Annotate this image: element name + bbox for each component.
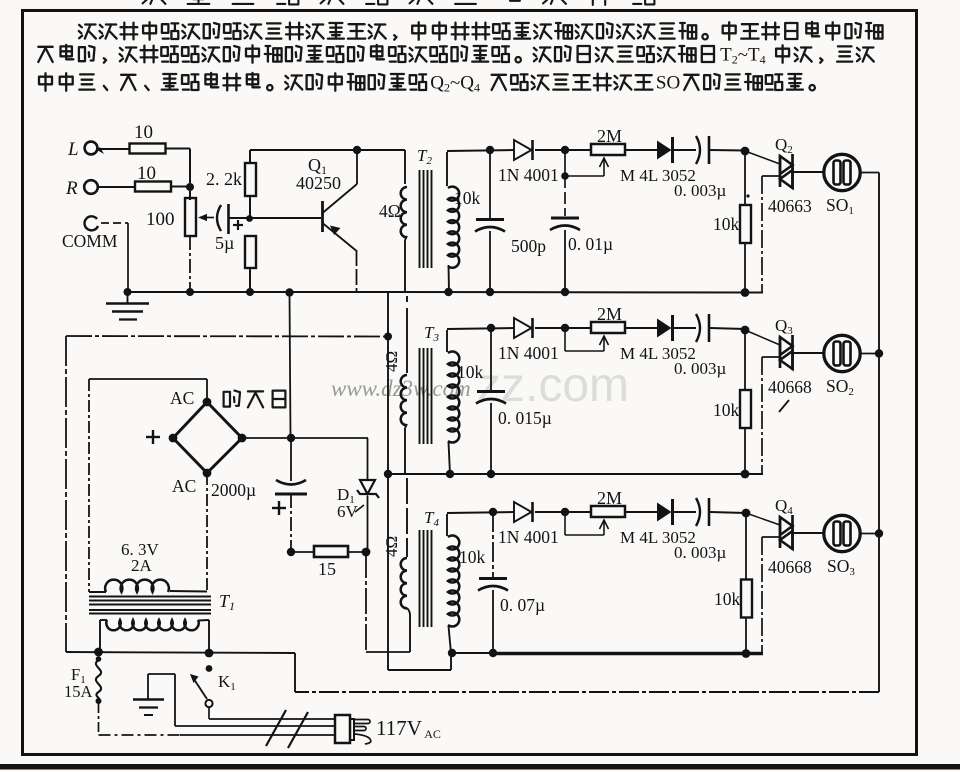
potentiometer 2M row1 <box>591 126 625 155</box>
wire cap to base node <box>229 215 253 222</box>
svg-text:Q2: Q2 <box>775 135 793 156</box>
svg-text:0. 003µ: 0. 003µ <box>674 181 727 200</box>
watermark large <box>477 359 629 412</box>
svg-text:SO2: SO2 <box>826 376 854 398</box>
outer left bus <box>65 336 67 652</box>
fuse F1 15A <box>64 656 102 704</box>
bottom supply wire <box>66 648 295 658</box>
svg-text:2M: 2M <box>597 126 622 146</box>
svg-text:AC: AC <box>170 388 194 408</box>
wire lamp SO1 to return bus <box>859 172 880 174</box>
svg-text:L: L <box>67 139 79 160</box>
left feed bus for transformer primaries <box>384 292 392 670</box>
svg-text:4Ω: 4Ω <box>382 536 401 557</box>
svg-text:0. 015µ: 0. 015µ <box>498 408 552 428</box>
wire to return loop <box>294 653 296 692</box>
svg-text:10: 10 <box>134 122 153 143</box>
paragraph line 3 <box>39 72 815 94</box>
wire triac to lamp row3 <box>793 532 826 534</box>
T1 label <box>219 591 235 613</box>
ground to mains wire <box>175 725 336 727</box>
label 4ohm T2 <box>379 201 401 221</box>
switch K1 <box>190 665 236 707</box>
row1 bottom rail y=292 <box>388 288 763 297</box>
wire cap to gate node row3 <box>710 509 750 518</box>
svg-text:117V AC: 117V AC <box>376 716 441 741</box>
diac M4L3052 row1 <box>620 137 696 185</box>
T3 label <box>424 323 439 344</box>
capacitor 0.015u <box>476 328 552 474</box>
capacitor 2000u <box>211 433 307 552</box>
wire lamp SO2 to return bus <box>859 349 884 357</box>
bridge AC top feed wire <box>89 379 207 399</box>
svg-text:2000µ: 2000µ <box>211 480 256 500</box>
resistor 15 <box>287 546 371 579</box>
paragraph line 1 <box>79 22 883 40</box>
T2 primary 4ohm <box>401 150 407 292</box>
svg-text:2. 2k: 2. 2k <box>206 169 242 189</box>
2M wiper hook row2 <box>565 328 609 351</box>
wire R2 to node / node dot <box>171 183 194 191</box>
svg-text:2M: 2M <box>597 304 622 324</box>
triac Q4 <box>746 496 812 577</box>
lamp return bus vertical <box>878 173 880 693</box>
T3 secondary 10k <box>447 330 459 474</box>
wire base node to Q1 base <box>250 217 321 219</box>
lamp SO2 <box>824 335 860 398</box>
T4 secondary 10k <box>447 514 459 653</box>
emitter supply drop wire <box>290 293 291 439</box>
svg-text:15: 15 <box>318 559 336 579</box>
T3 primary 4ohm <box>401 296 407 474</box>
T4 label <box>424 508 439 529</box>
label 10k T2 <box>454 188 481 208</box>
lamp SO3 <box>824 515 860 578</box>
label 4ohm T3 (rotated) <box>382 351 401 372</box>
label rectifier (chinese) <box>224 391 286 408</box>
node: collector rail junction <box>353 146 361 154</box>
row3 rail from T4 <box>447 512 514 513</box>
paragraph line 2 <box>38 44 874 66</box>
row3 bottom rail y=653 <box>448 649 763 658</box>
label AC (top) <box>170 388 194 408</box>
diode 1N4001 row2 <box>498 318 559 363</box>
terminal R <box>65 178 98 199</box>
lamp SO1 <box>824 154 860 217</box>
resistor 2.2k <box>206 150 256 218</box>
diac M4L3052 row2 <box>620 315 696 363</box>
svg-text:2M: 2M <box>597 488 622 508</box>
stray slash mark <box>779 400 789 412</box>
potentiometer 2M row3 <box>591 488 625 517</box>
watermark small <box>331 376 471 401</box>
label AC (bottom) <box>172 476 196 496</box>
wire triac to lamp row1 <box>793 171 826 173</box>
bridge + label <box>146 430 160 444</box>
svg-text:T2: T2 <box>417 146 432 167</box>
svg-text:10k: 10k <box>713 214 740 234</box>
transformer T4 core <box>420 530 432 627</box>
diac M4L3052 row3 <box>620 499 696 547</box>
ground (input common) <box>106 288 149 320</box>
resistor 10 (left channel) <box>130 122 166 154</box>
diode D 1N4001 row1 <box>498 140 559 185</box>
svg-text:T1: T1 <box>219 591 235 613</box>
triac Q2 MT1 wire <box>762 176 780 292</box>
2M wiper hook row1 <box>561 150 608 180</box>
wire diode to pot row2 / dots <box>487 324 591 332</box>
lamp return bottom wire <box>295 691 879 693</box>
svg-text:0. 003µ: 0. 003µ <box>674 359 727 378</box>
wire 15 to T4 primary <box>366 552 410 652</box>
svg-text:AC: AC <box>172 476 196 496</box>
wire R to R2 <box>98 186 136 188</box>
svg-text:10: 10 <box>137 163 156 184</box>
row1 rail from T2 <box>447 150 514 151</box>
resistor 10k row2 <box>713 330 751 474</box>
svg-text:SO1: SO1 <box>826 195 854 217</box>
diode 1N4001 row3 <box>498 502 559 547</box>
capacitor 500p <box>475 150 546 292</box>
collector supply rail y=150 <box>250 149 405 151</box>
transistor Q1 40250 <box>296 150 357 292</box>
terminal COMM <box>62 216 128 292</box>
clipped title text row (bottom of page-title glyphs) <box>142 0 654 5</box>
capacitor 0.003u row2 <box>674 314 727 378</box>
label 4ohm T4 (rotated) <box>382 536 401 557</box>
wire diac to cap row3 <box>673 511 696 513</box>
wire triac to lamp row2 <box>793 352 826 354</box>
svg-text:100: 100 <box>146 209 175 230</box>
label 6.3V 2A <box>121 540 160 575</box>
2M wiper hook row3 <box>565 512 609 535</box>
svg-text:0. 01µ: 0. 01µ <box>568 234 613 254</box>
resistor 10 (right channel) <box>135 163 171 192</box>
chassis ground <box>133 674 175 726</box>
svg-text:1N 4001: 1N 4001 <box>498 343 559 363</box>
T1 feed wires to bridge <box>89 379 207 592</box>
svg-text:COMM: COMM <box>62 231 118 251</box>
bottom scan edge bar <box>0 764 960 770</box>
svg-text:40250: 40250 <box>296 173 341 193</box>
wire bridge + output <box>242 434 368 442</box>
label 10k T4 <box>459 547 486 567</box>
wire pot to diac row2 <box>625 327 657 329</box>
terminal L <box>67 139 104 160</box>
lower bias resistor <box>245 236 256 292</box>
triac Q4 MT1 wire <box>762 537 780 653</box>
wire pot to diac row3 <box>625 511 657 513</box>
capacitor 5u <box>215 204 243 253</box>
capacitor 0.01u <box>550 176 613 292</box>
svg-text:SO3: SO3 <box>827 556 855 578</box>
wire lamp SO3 to return bus <box>859 529 884 537</box>
wire diode to pot row1 / junction dots <box>486 146 591 154</box>
T4 primary 4ohm <box>401 478 410 652</box>
svg-text:10k: 10k <box>454 188 481 208</box>
svg-text:10k: 10k <box>714 589 741 609</box>
triac Q3 MT1 wire <box>762 357 780 474</box>
svg-text:R: R <box>65 178 78 199</box>
row2 rail from T3 <box>447 328 514 329</box>
wire diac to cap row1 <box>673 149 696 151</box>
transformer T3 core <box>420 348 432 444</box>
switch to mains wire <box>209 707 336 719</box>
T1 secondary winding <box>89 580 207 592</box>
svg-text:0. 07µ: 0. 07µ <box>500 595 545 615</box>
capacitor 0.07u <box>478 512 545 653</box>
svg-text:4Ω: 4Ω <box>382 351 401 372</box>
svg-text:40668: 40668 <box>768 557 812 577</box>
svg-text:zz.com: zz.com <box>477 359 629 412</box>
label 117VAC <box>376 716 441 741</box>
wire R1 to node <box>166 149 191 184</box>
wire cap to gate node row1 <box>710 147 749 156</box>
T2 secondary 10k <box>447 152 459 292</box>
capacitor 0.003u row1 <box>674 136 750 200</box>
capacitor 0.003u row3 <box>674 498 727 562</box>
T2 label <box>417 146 432 167</box>
svg-text:T4: T4 <box>424 508 439 529</box>
label 10k T3 <box>457 362 484 382</box>
potentiometer 100 <box>146 191 196 292</box>
T1 primary winding <box>100 620 209 653</box>
resistor 10k row1 <box>713 151 751 292</box>
svg-text:K1: K1 <box>218 672 236 693</box>
svg-text:1N 4001: 1N 4001 <box>498 165 559 185</box>
wire diac to cap row2 <box>673 327 696 329</box>
triac Q3 <box>745 316 812 397</box>
svg-text:10k: 10k <box>457 362 484 382</box>
svg-text:Q3: Q3 <box>775 316 793 337</box>
pot wiper arrow <box>198 214 214 221</box>
ground rail (emitter/common) y=292 <box>128 291 389 293</box>
resistor 10k row3 <box>714 513 752 653</box>
svg-text:15A: 15A <box>64 682 93 701</box>
wire L to R1 <box>98 148 129 150</box>
svg-text:10k: 10k <box>459 547 486 567</box>
svg-text:40668: 40668 <box>768 377 812 397</box>
svg-text:0. 003µ: 0. 003µ <box>674 543 727 562</box>
potentiometer 2M row2 <box>591 304 625 333</box>
row2 bottom rail y=474 <box>388 470 763 479</box>
wire pot to diac row1 <box>625 149 657 151</box>
wire cap to gate node row2 <box>710 326 749 335</box>
bridge rectifier (zheng liu qi) <box>169 398 247 478</box>
zener D1 6V <box>337 438 379 552</box>
fuse to mains wire <box>99 703 337 735</box>
T1 core <box>89 597 211 614</box>
node dots on ground rail <box>186 288 294 297</box>
transformer T2 core <box>420 170 432 268</box>
svg-text:10k: 10k <box>713 400 740 420</box>
wire bus to supply (y=336) <box>66 335 388 338</box>
triac Q2 <box>745 135 812 216</box>
svg-text:40663: 40663 <box>768 196 812 216</box>
bus bottom hook to row3 rail <box>388 653 451 670</box>
svg-text:5µ: 5µ <box>215 233 234 253</box>
svg-text:2A: 2A <box>131 556 153 575</box>
svg-text:Q4: Q4 <box>775 496 793 517</box>
wire diode to pot row3 / dots <box>489 508 591 516</box>
svg-text:4Ω: 4Ω <box>379 201 401 221</box>
svg-text:T3: T3 <box>424 323 439 344</box>
mains cable slashes <box>266 710 308 748</box>
svg-text:500p: 500p <box>511 236 546 256</box>
mains plug <box>335 715 371 744</box>
svg-text:1N 4001: 1N 4001 <box>498 527 559 547</box>
